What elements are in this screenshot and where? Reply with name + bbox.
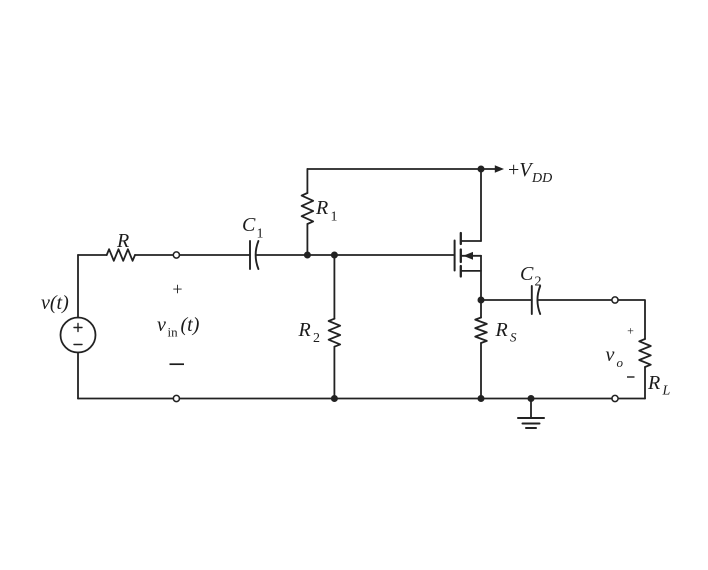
junction dot (gate node A) xyxy=(304,252,311,259)
wire xyxy=(77,255,79,318)
node (output open terminal, bottom) xyxy=(612,395,618,401)
capacitor C2 xyxy=(531,286,533,314)
svg-text:R: R xyxy=(298,319,311,341)
svg-text:in: in xyxy=(168,325,179,340)
label - (vin polarity) xyxy=(170,363,185,365)
svg-text:DD: DD xyxy=(531,171,552,186)
svg-text:R: R xyxy=(647,372,660,394)
wire xyxy=(257,254,308,256)
junction dot (VDD node) xyxy=(478,166,485,173)
svg-text:+: + xyxy=(627,324,634,338)
node (output open terminal, top) xyxy=(612,297,618,303)
wire xyxy=(77,353,79,399)
svg-text:R: R xyxy=(315,197,328,219)
wire xyxy=(618,398,645,400)
voltage source v(t) xyxy=(61,318,96,353)
wire xyxy=(538,299,612,301)
label - (vo polarity) xyxy=(627,376,635,378)
junction dot (source node) xyxy=(478,297,485,304)
svg-text:+: + xyxy=(172,279,182,299)
resistor RS xyxy=(480,300,482,318)
svg-text:1: 1 xyxy=(257,227,264,242)
svg-text:C: C xyxy=(520,263,534,285)
svg-text:(t): (t) xyxy=(181,314,200,336)
svg-text:R: R xyxy=(495,319,508,341)
node (input open terminal, top) xyxy=(173,252,179,258)
svg-text:2: 2 xyxy=(313,331,320,346)
supply +VDD arrow xyxy=(481,168,496,170)
svg-text:v: v xyxy=(157,314,166,336)
resistor R1 xyxy=(306,224,308,255)
svg-text:v: v xyxy=(606,344,615,366)
svg-text:2: 2 xyxy=(535,275,542,290)
transistor M1 (n-channel MOSFET) xyxy=(454,241,456,271)
svg-text:R: R xyxy=(116,230,129,252)
wire xyxy=(618,300,645,339)
svg-text:L: L xyxy=(662,384,671,399)
capacitor C1 xyxy=(249,241,251,269)
junction dot (R2 top) xyxy=(331,252,338,259)
junction dot (ground node) xyxy=(528,395,535,402)
svg-text:v(t): v(t) xyxy=(41,292,69,314)
ground xyxy=(530,399,532,418)
resistor RL xyxy=(639,339,651,367)
junction dot (R2 bottom) xyxy=(331,395,338,402)
wire (drain lead) xyxy=(480,169,482,241)
junction dot (RS bottom) xyxy=(478,395,485,402)
wire xyxy=(180,254,251,256)
wire (gate lead) xyxy=(307,254,454,256)
wire (C2 left lead) xyxy=(481,299,532,301)
node (input open terminal, bottom) xyxy=(173,395,179,401)
svg-text:o: o xyxy=(617,355,624,370)
wire (bottom rail) xyxy=(78,398,173,400)
svg-text:S: S xyxy=(510,330,517,345)
svg-text:1: 1 xyxy=(331,210,338,225)
svg-text:+V: +V xyxy=(508,159,534,181)
resistor R2 xyxy=(333,255,335,319)
svg-text:C: C xyxy=(242,214,256,236)
wire (top rail) xyxy=(307,168,481,170)
resistor R xyxy=(78,254,107,256)
